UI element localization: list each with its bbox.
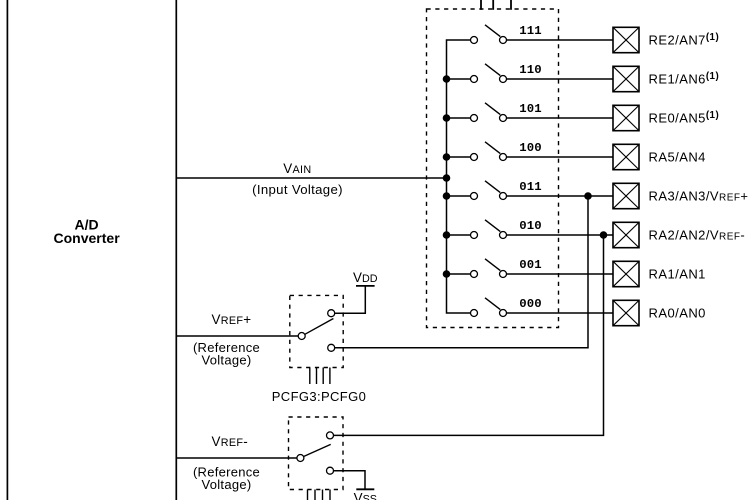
svg-text:VAIN: VAIN [283, 161, 311, 176]
VREF- switch arm [304, 444, 331, 456]
svg-text:Voltage): Voltage) [202, 353, 252, 368]
wire lower contact to VSS [334, 471, 365, 490]
VREF+ switch common contact [298, 333, 305, 340]
VREF- upper contact (external ref) [327, 432, 334, 439]
wire channel 010 to pin [507, 234, 613, 236]
wire channel 110 to pin [507, 78, 613, 80]
node bus junction AN3 [443, 192, 451, 200]
svg-text:110: 110 [519, 63, 541, 77]
VREF+ upper contact (VDD) [328, 310, 335, 317]
VREF+ lower contact (external ref) [328, 344, 335, 351]
pin RA0/AN0 I/O pad symbol [613, 300, 639, 325]
svg-text:101: 101 [519, 102, 541, 116]
switch channel 010 (AN2) [447, 220, 507, 239]
svg-text:RA1/AN1: RA1/AN1 [649, 267, 706, 282]
node bus junction AN1 [443, 270, 451, 278]
svg-text:100: 100 [519, 141, 541, 155]
svg-text:RA5/AN4: RA5/AN4 [649, 150, 706, 165]
VREF- source select dashed box [289, 417, 344, 490]
wire channel 011 to pin [507, 195, 613, 197]
switch channel 100 (AN4) [447, 142, 507, 161]
wire channel 100 to pin [507, 156, 613, 158]
wire VREF+ input [177, 335, 298, 337]
switch channel 001 (AN1) [447, 259, 507, 278]
switch channel 110 (AN6) [447, 64, 507, 83]
svg-text:VREF+: VREF+ [212, 312, 252, 327]
switch channel 011 (AN3) [447, 181, 507, 200]
pin RA5/AN4 I/O pad symbol [613, 144, 639, 169]
wire channel 111 to pin [507, 39, 613, 41]
node VAIN bus junction [443, 174, 451, 182]
svg-text:111: 111 [519, 24, 541, 38]
power VDD symbol [356, 285, 375, 287]
node bus junction AN2 [443, 231, 451, 239]
svg-text:011: 011 [519, 180, 541, 194]
VREF+ source select dashed box [290, 295, 343, 367]
VREF- switch common contact [297, 455, 304, 462]
analog input mux dashed box [427, 9, 559, 328]
svg-text:000: 000 [519, 297, 541, 311]
VREF+ switch arm [305, 319, 333, 335]
node bus junction AN5 [443, 114, 451, 122]
svg-text:RA0/AN0: RA0/AN0 [649, 306, 706, 321]
node junction on AN3 line [584, 192, 592, 200]
wire mux common input bus [447, 40, 471, 313]
label A/D Converter [54, 217, 121, 246]
node bus junction AN6 [443, 75, 451, 83]
wire channel 001 to pin [507, 273, 613, 275]
node bus junction AN4 [443, 153, 451, 161]
svg-text:VREF-: VREF- [212, 434, 249, 449]
pin RA1/AN1 I/O pad symbol [613, 261, 639, 286]
svg-text:010: 010 [519, 219, 541, 233]
wire VREF- input [177, 457, 297, 459]
pin RE0/AN5 I/O pad symbol [613, 105, 639, 130]
pin RA3/AN3/VREF+ I/O pad symbol [613, 183, 639, 208]
svg-text:(Input Voltage): (Input Voltage) [252, 182, 343, 197]
wire RA3/AN3 to VREF+ select switch [335, 196, 588, 348]
VREF- lower contact (VSS) [327, 467, 334, 474]
wire RA2/AN2 to VREF- select switch [334, 235, 604, 435]
wire upper contact to VDD [335, 286, 365, 313]
svg-text:Voltage): Voltage) [202, 477, 252, 492]
pin RA2/AN2/VREF- I/O pad symbol [613, 222, 639, 247]
label (Reference Voltage) for VREF+ [193, 340, 260, 368]
A/D Converter block left edge [6, 0, 8, 500]
svg-text:PCFG3:PCFG0: PCFG3:PCFG0 [272, 389, 366, 404]
PCFG3:PCFG0 control lines (VREF+ switch) [310, 368, 330, 385]
wire channel 000 to pin [507, 312, 613, 314]
power VSS symbol [356, 488, 374, 490]
switch channel 101 (AN5) [447, 103, 507, 122]
svg-text:001: 001 [519, 258, 541, 272]
wire VAIN input [177, 177, 447, 179]
node junction on AN2 line [600, 231, 608, 239]
svg-text:Converter: Converter [54, 230, 121, 246]
A/D Converter block right edge [175, 0, 177, 500]
label (Reference Voltage) for VREF- [193, 464, 260, 492]
PCFG3:PCFG0 control lines (VREF- switch) [308, 490, 331, 500]
switch channel 111 (AN7) [471, 25, 507, 44]
svg-text:VDD: VDD [353, 270, 378, 285]
pin RE1/AN6 I/O pad symbol [613, 66, 639, 91]
pin RE2/AN7 I/O pad symbol [613, 27, 639, 52]
CHS2:CHS0 channel select control lines [481, 0, 511, 10]
switch channel 000 (AN0) [471, 298, 507, 317]
wire channel 101 to pin [507, 117, 613, 119]
